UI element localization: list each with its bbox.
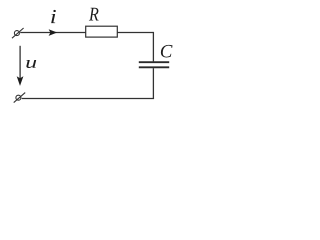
label R (89, 8, 99, 21)
label u (26, 60, 36, 68)
current arrow i (49, 29, 58, 36)
wire (top-left horizontal) (20, 32, 86, 34)
terminal (bottom-left) (14, 93, 26, 103)
wire (right vertical upper) (152, 32, 154, 62)
label i (51, 10, 56, 23)
resistor R (86, 26, 118, 37)
capacitor C (139, 62, 169, 67)
wire (bottom horizontal) (22, 98, 154, 100)
wire (top-right horizontal) (117, 32, 153, 34)
wire (right vertical lower) (152, 68, 154, 98)
label C (161, 45, 173, 58)
voltage arrow u (17, 46, 24, 86)
terminal (top-left) (12, 28, 24, 38)
